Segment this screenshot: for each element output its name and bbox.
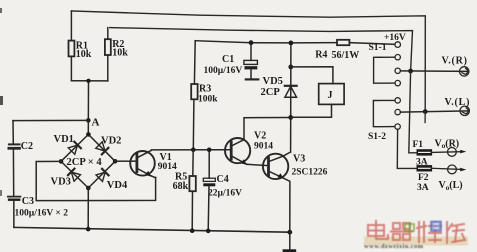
wire V2 emitter to V3 base: [247, 164, 269, 165]
junction dot R3/R5: [191, 148, 196, 153]
relay J box: [319, 84, 344, 105]
terminal Vo(L): [448, 165, 457, 174]
arrow Vo(R): [460, 150, 466, 154]
switch S1-1 bracket: [374, 57, 395, 83]
svg-text:C3: C3: [22, 196, 34, 207]
capacitor C1: [244, 43, 258, 80]
wire F1 to Vo(R): [432, 151, 461, 154]
node bridge bottom: [86, 186, 91, 191]
svg-text:+16V: +16V: [384, 33, 406, 43]
label V1 9014: [158, 152, 177, 172]
svg-text:10k: 10k: [112, 47, 128, 58]
watermark accent blue char: [431, 222, 441, 232]
node A: [86, 118, 91, 123]
fuse F1: [417, 150, 432, 155]
svg-text:R3: R3: [199, 84, 211, 95]
svg-text:VD3: VD3: [51, 176, 71, 187]
resistor R5: [189, 150, 195, 231]
wire V1 collector rail to V2 base: [151, 149, 230, 151]
wire bridge left detour to V1 emitter: [36, 161, 155, 200]
svg-text:Vo(R): Vo(R): [435, 138, 460, 150]
svg-text:R4: R4: [315, 49, 327, 60]
edge smudge left middle: [0, 96, 3, 105]
svg-text:C1: C1: [222, 54, 234, 65]
svg-text:C2: C2: [21, 141, 33, 152]
svg-text:10k: 10k: [76, 49, 92, 60]
label V3 2SC1226: [292, 154, 328, 178]
ground: [283, 249, 297, 252]
resistor R2: [105, 28, 111, 81]
wire top rail 2 from R2 to V.(R) node: [110, 28, 413, 71]
wire V.(L) input: [400, 111, 468, 112]
svg-text:VD1: VD1: [54, 134, 74, 145]
junction dot supply-VD5: [289, 41, 294, 46]
label VD5 2CP: [261, 76, 283, 98]
svg-text:VD2: VD2: [101, 136, 121, 147]
svg-text:V3: V3: [293, 154, 305, 165]
node bridge left: [59, 159, 64, 164]
wire node A to left column: [13, 119, 88, 121]
junction dot C4 top: [207, 148, 212, 153]
terminal Vo(R): [448, 148, 457, 157]
svg-text:2SC1226: 2SC1226: [292, 168, 328, 178]
wire F2 to Vo(L): [432, 168, 461, 169]
diode VD1: [68, 142, 81, 155]
junction dot ground rail end: [287, 230, 292, 235]
wire ground rail bottom: [14, 227, 290, 232]
transistor V2: [225, 138, 250, 165]
label R1 10k: [76, 40, 92, 60]
svg-text:F1: F1: [413, 140, 424, 150]
diode VD3: [68, 169, 81, 182]
junction dot relay bottom / V2 collector: [288, 115, 293, 120]
junction dot relay top: [288, 65, 293, 70]
diode VD4: [96, 169, 109, 182]
fuse F2: [417, 166, 432, 171]
svg-text:F2: F2: [418, 173, 429, 183]
svg-text:C4: C4: [217, 174, 229, 185]
svg-text:www.dzweixiu.com: www.dzweixiu.com: [364, 243, 424, 250]
terminal +16V: [395, 42, 401, 48]
pseudo-char 3 wei: [417, 222, 441, 242]
svg-text:22µ/16V: 22µ/16V: [208, 189, 242, 199]
label V2 9014: [254, 131, 273, 152]
wire supply line R3 corner to +16V: [195, 41, 395, 45]
edge smudge left top: [0, 8, 2, 13]
label C1 100u/16V: [204, 54, 243, 76]
junction dot V.(R): [408, 69, 413, 74]
svg-text:Vo(L): Vo(L): [439, 180, 463, 192]
wire bridge bottom to ground rail: [87, 188, 89, 229]
node bridge top: [86, 132, 91, 137]
diode VD5: [285, 86, 297, 97]
wire V2 collector branch: [244, 118, 291, 140]
svg-text:A: A: [92, 117, 100, 129]
terminal V.(L): [460, 106, 469, 115]
svg-text:3A: 3A: [417, 183, 429, 193]
arrow Vo(L): [460, 168, 466, 172]
svg-text:V.(R): V.(R): [442, 56, 468, 67]
capacitor C2: [9, 121, 20, 196]
svg-text:68k: 68k: [173, 181, 189, 192]
switch S1-2 contacts: [395, 98, 401, 130]
wire fuse F2 feed from S1-2: [397, 129, 417, 168]
transistor V1: [130, 150, 155, 177]
pseudo-char 2 qi: [391, 223, 412, 240]
node bridge right: [113, 159, 118, 164]
junction dot C4-ground: [206, 229, 211, 234]
svg-text:100µ/16V: 100µ/16V: [204, 66, 243, 76]
switch S1-1 contacts: [395, 55, 400, 86]
watermark accent green char: [405, 222, 414, 233]
junction dot C1 top: [249, 40, 254, 45]
terminal V.(R): [460, 67, 469, 76]
relay J wiring: [291, 67, 333, 118]
label R4 56/1W: [315, 49, 359, 61]
svg-text:2CP: 2CP: [261, 87, 281, 98]
wire VD5 branch vertical: [290, 43, 292, 152]
wire bridge right to V1 base: [115, 160, 136, 162]
svg-text:2CP × 4: 2CP × 4: [67, 157, 103, 168]
svg-text:56/1W: 56/1W: [332, 50, 360, 61]
label R5 68k: [173, 172, 189, 193]
svg-text:J: J: [328, 90, 333, 101]
pseudo-char 1 dian: [368, 221, 388, 239]
svg-text:S1-2: S1-2: [368, 132, 386, 142]
capacitor C4: [203, 150, 215, 231]
wire fuse F1 feed: [409, 71, 417, 153]
svg-text:V.(L): V.(L): [445, 97, 471, 108]
watermark logo: [364, 221, 468, 250]
label R3 100k: [198, 84, 218, 105]
resistor R1: [69, 11, 75, 81]
svg-text:100k: 100k: [198, 95, 218, 105]
wire R1-R2 junction to node A: [71, 81, 107, 135]
junction dot R5-ground: [190, 228, 195, 233]
svg-text:9014: 9014: [254, 141, 273, 151]
label R2 10k: [112, 39, 128, 59]
svg-text:V1: V1: [160, 152, 172, 163]
wire V.(R) input: [400, 70, 468, 73]
bridge rectifier arms: [61, 134, 115, 188]
resistor R4: [337, 40, 349, 45]
label C4 22u/16V: [208, 174, 242, 199]
wire stub below V.(L) dot: [424, 112, 426, 123]
svg-text:100µ/16V × 2: 100µ/16V × 2: [15, 209, 69, 219]
junction dot R1-R2: [86, 79, 90, 83]
svg-text:VD4: VD4: [107, 180, 128, 191]
switch S1-2 bracket: [373, 100, 395, 126]
wire top rail 1 from R1 to V.(L) node: [71, 11, 425, 112]
edge smudge left low: [0, 190, 2, 196]
svg-text:S1-1: S1-1: [369, 43, 387, 53]
wire V3 emitter to ground: [289, 232, 291, 249]
diode VD2: [96, 142, 109, 155]
junction dot bridge-ground: [86, 227, 91, 232]
svg-text:V2: V2: [254, 131, 266, 142]
pseudo-char 4 xiu: [447, 222, 465, 243]
svg-text:VD5: VD5: [263, 76, 283, 87]
resistor R3: [191, 41, 197, 150]
junction dot V.(L): [423, 109, 428, 114]
capacitor C3: [8, 197, 21, 228]
transistor V3: [263, 152, 291, 232]
